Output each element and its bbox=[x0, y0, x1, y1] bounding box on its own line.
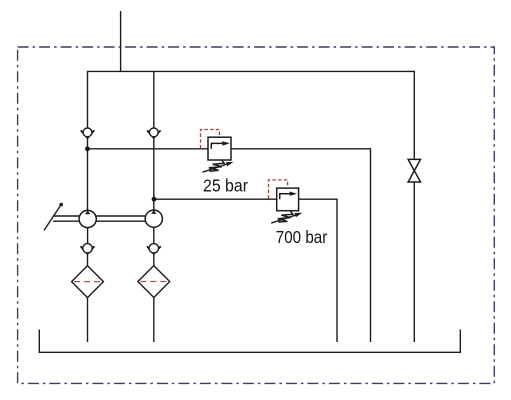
svg-text:700 bar: 700 bar bbox=[276, 227, 328, 247]
svg-text:25 bar: 25 bar bbox=[203, 175, 248, 195]
